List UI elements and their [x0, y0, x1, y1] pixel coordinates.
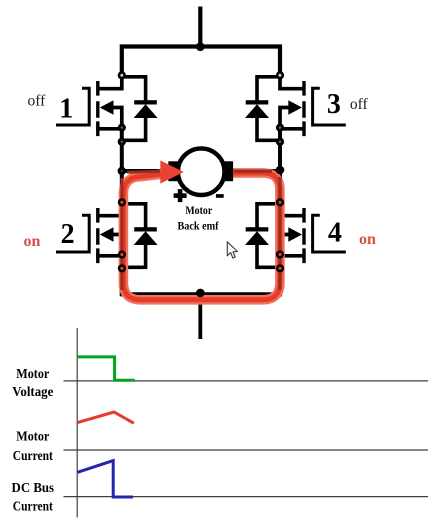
svg-text:Current: Current — [13, 448, 54, 463]
transistor Q4 (MOSFET, bottom-right) — [279, 202, 346, 263]
svg-text:3: 3 — [327, 89, 341, 120]
label: Motor — [185, 203, 212, 217]
node: Q1 source junction — [118, 124, 126, 132]
label: Q3 designator "3" — [327, 89, 341, 120]
node: motor rail right junction — [276, 166, 285, 175]
waveform: dc bus current (blue) — [78, 461, 134, 497]
wire: motor rail left segment — [122, 169, 172, 173]
node: bottom rail center junction — [196, 289, 205, 298]
waveform: motor voltage (green) — [77, 357, 135, 380]
diode D4 (freewheel, bottom-right) — [245, 204, 280, 267]
node: supply junction on top rail — [196, 42, 205, 51]
label: Q1 designator "1" — [59, 94, 73, 125]
svg-text:1: 1 — [59, 94, 73, 125]
node: Q2 drain junction — [118, 198, 126, 206]
svg-text:Current: Current — [13, 499, 54, 514]
wire: bottom rail with corners — [122, 253, 280, 294]
svg-text:on: on — [23, 233, 40, 250]
label: Back emf — [178, 219, 220, 233]
svg-text:Back emf: Back emf — [178, 219, 220, 233]
svg-text:Motor: Motor — [16, 366, 49, 381]
chart axis: motor voltage baseline — [64, 380, 429, 382]
svg-text:Motor: Motor — [185, 203, 212, 217]
node: Q1 drain junction — [118, 71, 126, 79]
label: Q4 state "on" — [359, 231, 376, 248]
node: Q3 drain junction — [276, 71, 284, 79]
chart axis: dc bus current baseline — [64, 496, 429, 498]
waveform: motor current (red) — [78, 412, 134, 423]
label: Q3 state "off" — [350, 96, 369, 113]
transistor Q2 (MOSFET, bottom-left) — [56, 202, 123, 263]
node: D4 anode junction — [276, 264, 284, 272]
node: Q3 source junction — [276, 124, 284, 132]
diode D3 (freewheel, top-right) — [245, 77, 280, 141]
svg-text:4: 4 — [328, 218, 342, 249]
wire: motor rail right segment — [230, 169, 280, 173]
svg-text:off: off — [28, 93, 47, 110]
node: Q4 drain junction — [276, 198, 284, 206]
svg-text:DC Bus: DC Bus — [12, 480, 55, 495]
label: Motor Current — [13, 429, 54, 463]
diode D2 (freewheel, bottom-left) — [122, 204, 158, 267]
svg-text:on: on — [359, 231, 376, 248]
wire: right branch upper (Q3 source to motor rail) — [278, 126, 282, 204]
chart axis: vertical — [76, 328, 78, 518]
motor M1 (DC motor symbol) — [168, 148, 233, 195]
wire: left branch upper (Q1 source to motor rail) — [120, 126, 124, 204]
label: motor polarity "-" — [216, 194, 224, 198]
diode D1 (freewheel, top-left) — [122, 77, 158, 141]
node: Q4 source junction — [276, 250, 284, 258]
wire: bottom supply stub — [198, 294, 202, 339]
label: Q4 designator "4" — [328, 218, 342, 249]
label: motor polarity "+" — [174, 189, 187, 202]
chart axis: motor current baseline — [64, 449, 429, 451]
node: Q2 source junction — [118, 250, 126, 258]
wire: red current loop (highlight) — [122, 171, 280, 300]
svg-text:2: 2 — [61, 219, 75, 250]
transistor Q3 (MOSFET, top-right) — [279, 75, 346, 136]
svg-text:off: off — [350, 96, 369, 113]
svg-text:Motor: Motor — [16, 429, 49, 444]
label: Q2 designator "2" — [61, 219, 75, 250]
node: motor rail left junction — [118, 167, 126, 175]
label: DC Bus Current — [12, 480, 55, 514]
svg-text:Voltage: Voltage — [12, 384, 53, 399]
wire: positive supply stub (top center) — [198, 7, 202, 47]
label: Q2 state "on" — [23, 233, 40, 250]
label: Motor Voltage — [12, 366, 53, 399]
transistor Q1 (MOSFET, top-left) — [56, 75, 123, 136]
node: D2 anode junction — [118, 264, 126, 272]
node: D3 anode junction — [276, 138, 284, 146]
mouse cursor — [227, 242, 237, 258]
current direction arrow (red, into motor + terminal) — [160, 160, 184, 183]
wire: top rail — [122, 47, 280, 77]
node: D1 anode junction — [118, 138, 126, 146]
label: Q1 state "off" — [28, 93, 47, 110]
